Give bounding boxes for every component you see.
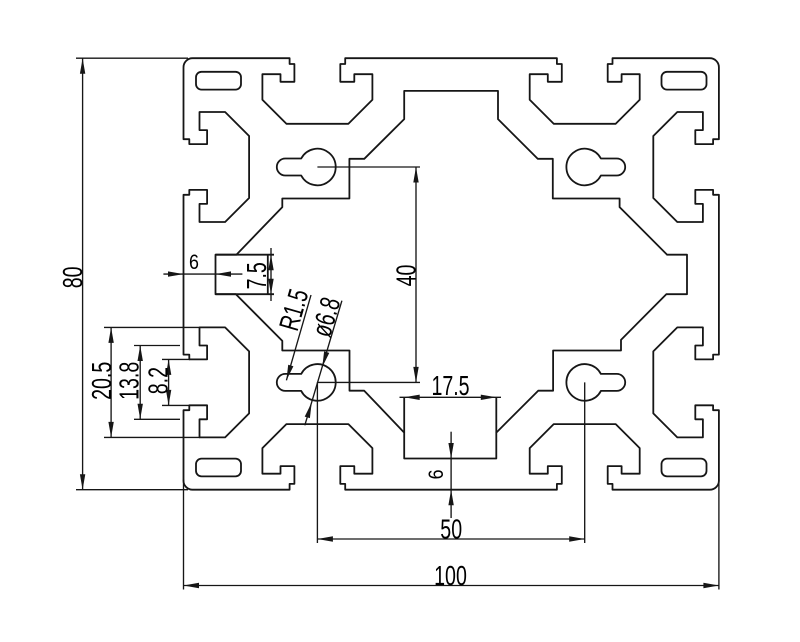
keyhole top-right <box>566 149 625 186</box>
corner hole bottom-left <box>196 459 241 477</box>
bottom pocket side walls <box>403 397 405 432</box>
svg-text:13.8: 13.8 <box>114 362 145 400</box>
left middle pocket extra outline <box>216 254 275 256</box>
dim 6 bottom line <box>450 432 452 518</box>
profile outer outline with eight T-slot openings <box>184 58 719 490</box>
dim 40 line and extensions <box>415 167 417 382</box>
dim 8.2 line and extensions <box>168 359 170 405</box>
dim 100 line and extensions <box>184 585 719 587</box>
dim 50 line and extensions <box>317 538 584 540</box>
dim 20.5 line and extensions <box>110 327 112 437</box>
dim 7.5 line <box>270 248 272 301</box>
svg-text:7.5: 7.5 <box>241 262 272 289</box>
svg-text:8.2: 8.2 <box>143 367 174 394</box>
dim 13.8 line and extensions <box>139 346 141 420</box>
svg-text:17.5: 17.5 <box>431 370 469 401</box>
corner hole top-left <box>196 72 241 90</box>
svg-text:6: 6 <box>189 251 199 275</box>
svg-text:40: 40 <box>391 265 422 287</box>
svg-text:50: 50 <box>440 514 462 545</box>
keyhole bottom-right <box>566 364 625 401</box>
keyhole bottom-left <box>277 364 336 401</box>
leader R1.5 <box>286 295 311 380</box>
dim 17.5 line (pocket top edge) <box>400 396 502 398</box>
svg-text:6: 6 <box>425 469 449 479</box>
arrowheads <box>80 58 85 73</box>
central cavity outline <box>216 91 688 459</box>
dim 6 left line <box>163 273 242 275</box>
corner hole bottom-right <box>662 459 707 477</box>
keyhole top-left <box>277 149 336 186</box>
svg-text:100: 100 <box>434 561 467 592</box>
svg-text:80: 80 <box>57 267 88 289</box>
dim 80 line and extensions <box>82 58 84 490</box>
corner hole top-right <box>662 72 707 90</box>
leader dia 6.8 <box>305 301 342 426</box>
